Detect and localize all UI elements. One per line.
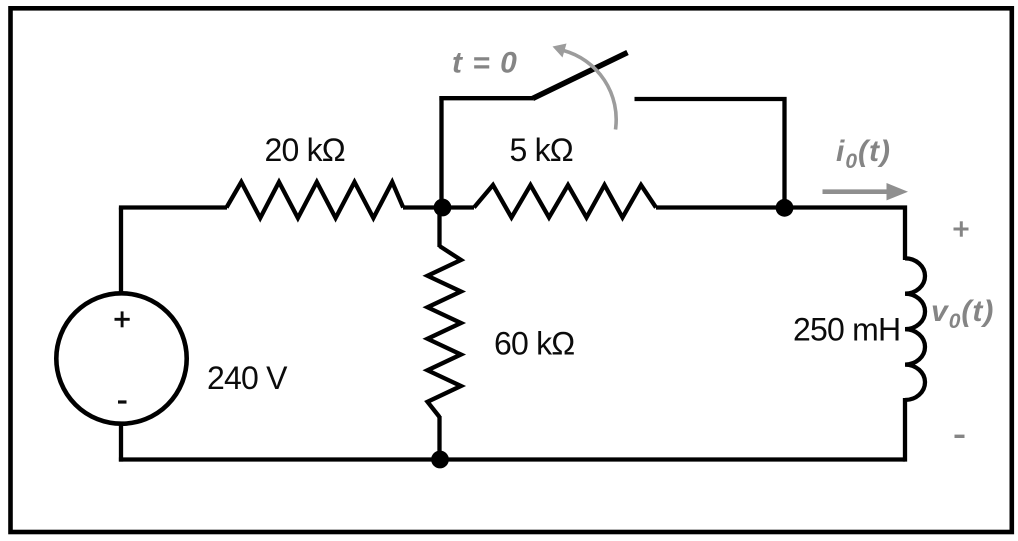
wire: top-left horizontal to 20k resistor xyxy=(119,205,227,209)
resistor R 60k bottom lead xyxy=(437,416,441,460)
wire: switch left vertical from node A up xyxy=(439,96,443,209)
node A junction dot xyxy=(434,199,452,217)
plus sign inside source xyxy=(115,318,130,321)
node C junction dot (bottom) xyxy=(431,451,449,469)
svg-text:t = 0: t = 0 xyxy=(452,47,518,80)
wire: source bottom to bottom rail xyxy=(119,423,123,462)
voltage source circle xyxy=(56,293,186,423)
wire: 5k to node B and corner down to inductor top xyxy=(656,208,905,261)
resistor R 60k vertical, top lead xyxy=(437,208,441,248)
plus sign (gray) near inductor xyxy=(954,228,969,231)
minus sign (gray) near inductor xyxy=(955,435,965,438)
resistor R 5k zigzag xyxy=(474,185,656,218)
resistor R 20k zigzag xyxy=(227,182,404,218)
wire: left vertical from top wire to source top xyxy=(119,208,123,295)
wire: 20k to node A xyxy=(403,205,474,209)
wire: bottom rail xyxy=(119,457,905,461)
switch blade xyxy=(533,53,628,99)
svg-text:250 mH: 250 mH xyxy=(793,312,900,348)
switch arc arrow (gray) xyxy=(564,51,617,130)
wire: switch left horizontal xyxy=(439,96,533,100)
svg-text:240 V: 240 V xyxy=(207,360,288,396)
svg-text:5 kΩ: 5 kΩ xyxy=(510,132,573,168)
resistor R 60k zigzag xyxy=(428,246,462,417)
svg-text:60 kΩ: 60 kΩ xyxy=(494,326,574,362)
wire: right vertical from inductor bottom to bottom rail xyxy=(903,398,907,462)
svg-text:20 kΩ: 20 kΩ xyxy=(265,132,345,168)
svg-text:v0(t): v0(t) xyxy=(931,295,994,333)
current arrow i0(t) (gray) xyxy=(823,189,892,194)
inductor L 250mH coil xyxy=(905,258,925,400)
minus sign inside source xyxy=(118,400,127,403)
node B junction dot xyxy=(776,199,794,217)
wire: switch right horizontal and corner down to node B xyxy=(635,99,785,209)
svg-text:i0(t): i0(t) xyxy=(836,135,891,173)
